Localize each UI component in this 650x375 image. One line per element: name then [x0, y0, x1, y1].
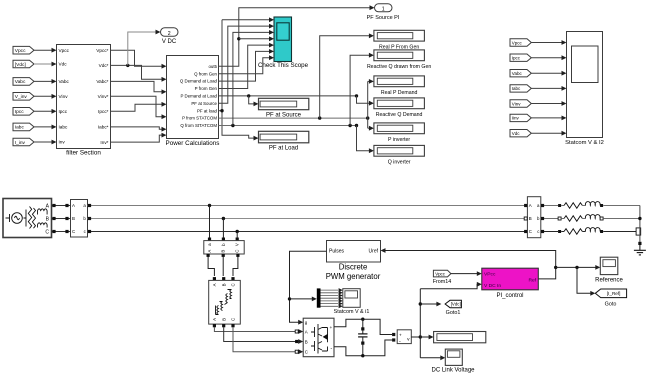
three-phase source block [3, 199, 52, 238]
svg-text:P from STATCOM: P from STATCOM [182, 116, 217, 121]
display Reactive Q Demand [374, 98, 425, 109]
bus wire phase B [88, 218, 528, 220]
from tag Vabc [13, 78, 34, 86]
svg-text:Goto: Goto [605, 302, 617, 308]
svg-text:1: 1 [382, 7, 385, 13]
svg-text:-: - [399, 339, 401, 345]
svg-text:[Vdc]: [Vdc] [15, 62, 26, 68]
from tag Vabc (statcom scope) [510, 70, 531, 77]
svg-text:[I_Ref]: [I_Ref] [607, 291, 621, 296]
svg-text:A: A [529, 203, 532, 208]
wire v output to DC link node [411, 336, 420, 338]
svg-text:[Vdc]: [Vdc] [451, 302, 461, 307]
svg-text:Iabc: Iabc [15, 125, 25, 131]
tap wires to PWM measurement block [208, 204, 211, 207]
svg-text:A: A [212, 283, 217, 286]
svg-text:Goto1: Goto1 [446, 310, 461, 316]
from tag V_inv [13, 93, 34, 101]
wire to Goto I_Ref [577, 267, 591, 293]
svg-text:Discrete: Discrete [339, 263, 368, 272]
svg-text:Iabc: Iabc [512, 86, 521, 91]
svg-text:Iinv: Iinv [512, 116, 520, 121]
wire PC out1 to PF Source PI and scope in4 [219, 8, 371, 67]
svg-text:Statcom V & I2: Statcom V & I2 [565, 140, 604, 146]
svg-text:+: + [399, 333, 402, 338]
from tag Vinv (statcom scope) [510, 100, 531, 107]
svg-text:Vinv*: Vinv* [98, 94, 109, 99]
svg-text:Vabc: Vabc [15, 79, 26, 85]
goto tag [Vdc] Goto1 [445, 300, 461, 307]
svg-text:C: C [231, 283, 236, 286]
wire to DC Link Voltage scope [420, 357, 441, 359]
svg-text:-: - [330, 345, 332, 351]
wire Vabc to filter [34, 80, 52, 82]
svg-text:C: C [234, 250, 239, 253]
wire PC out2 to scope in7 [219, 58, 270, 74]
svg-text:Real P Demand: Real P Demand [381, 90, 418, 96]
RL branch row 2 [541, 218, 558, 220]
display Real P From Gen [374, 30, 425, 41]
svg-text:Vabc: Vabc [59, 79, 70, 84]
svg-text:Vpcc: Vpcc [59, 48, 70, 53]
wires transformer to inverter bridge [213, 324, 216, 327]
svg-text:Vpcc: Vpcc [15, 48, 26, 54]
svg-text:B: B [221, 283, 226, 286]
wire From14 to PI VPcc [451, 273, 478, 275]
svg-text:Inv: Inv [59, 140, 66, 145]
svg-text:PF at Source: PF at Source [266, 113, 302, 119]
subsystem filter Section [57, 45, 111, 149]
svg-text:A: A [207, 250, 212, 253]
svg-text:V_inv: V_inv [15, 94, 28, 100]
from tag Vdc (statcom scope) [510, 130, 531, 137]
from tag Ipcc [13, 108, 34, 116]
svg-text:C: C [45, 229, 49, 235]
svg-text:PWM generator: PWM generator [326, 272, 381, 281]
scope DC Link Voltage [445, 349, 462, 365]
wire PC out8 to displays Real P From Gen / Real P Demand / P inverter [219, 117, 368, 119]
svg-text:P inverter: P inverter [388, 137, 410, 143]
svg-text:Vpcc: Vpcc [435, 271, 446, 276]
breaker element row C [636, 228, 641, 235]
svg-text:Uref: Uref [369, 249, 379, 255]
svg-text:PF Source PI: PF Source PI [367, 15, 400, 21]
display P inverter [374, 123, 425, 134]
display PF at Load [259, 131, 309, 143]
svg-text:P Demand at Load: P Demand at Load [180, 94, 217, 99]
wire Ref to Uref loop [385, 251, 556, 279]
svg-text:From14: From14 [433, 279, 452, 285]
display PF at Source [259, 98, 309, 109]
source icon [6, 207, 48, 229]
wire Vpcc to filter [34, 49, 52, 51]
from tag Iinv (statcom scope) [510, 114, 531, 121]
scope Statcom V and I2 [567, 32, 603, 138]
scope Reference [600, 257, 618, 274]
wire I_inv to filter [34, 141, 52, 143]
svg-text:Reactive Q Demand: Reactive Q Demand [376, 112, 423, 118]
svg-text:filter Section: filter Section [66, 150, 101, 157]
svg-text:C: C [529, 229, 532, 234]
wire Vabc to scope [531, 72, 562, 74]
svg-text:C: C [305, 349, 308, 354]
wire to DC display [420, 336, 429, 338]
svg-text:Vdc: Vdc [59, 62, 68, 67]
wire Iabc to filter [34, 126, 52, 128]
goto tag [I_Ref] [595, 289, 626, 298]
bus wire phase C [88, 231, 528, 233]
display Real P Demand [374, 76, 425, 87]
svg-text:VPcc: VPcc [484, 272, 496, 278]
transformer block [209, 280, 241, 324]
three-phase VI measurement block right [527, 197, 540, 238]
svg-text:V: V [235, 243, 240, 246]
wire Vdc to scope [531, 132, 562, 134]
wire [Vdc] to filter [34, 63, 52, 65]
from tag Iabc (statcom scope) [510, 85, 531, 92]
wire Iabc to scope [531, 87, 562, 89]
svg-text:+: + [329, 326, 332, 331]
voltage measurement block [397, 330, 411, 344]
wire Vinv to scope [531, 103, 562, 105]
svg-text:Q inverter: Q inverter [388, 160, 411, 166]
svg-text:DC Link Voltage: DC Link Voltage [431, 368, 475, 374]
svg-text:Ipcc: Ipcc [15, 109, 24, 115]
svg-text:I_inv: I_inv [15, 140, 26, 146]
from tag [Vdc] [13, 60, 34, 68]
from tag Vpcc From14 [433, 270, 451, 277]
RL branch row 1 [541, 205, 558, 207]
from tag Vpcc (statcom scope) [510, 39, 531, 46]
wire PC out6 PF at Source to scope in2 [219, 26, 270, 103]
vertical wire to ground [639, 206, 641, 242]
wire Ipcc to scope [531, 57, 562, 59]
svg-text:Check This Scope: Check This Scope [258, 62, 309, 69]
wire Vdc to V DC outport [126, 64, 129, 67]
svg-text:C: C [72, 229, 75, 234]
svg-text:Ref: Ref [528, 278, 536, 284]
svg-text:Statcom V & i1: Statcom V & i1 [334, 309, 370, 315]
svg-text:Ipcc*: Ipcc* [98, 109, 109, 114]
wire PC out4 to scope in5 [219, 45, 270, 88]
svg-text:C: C [231, 318, 236, 321]
signal lines demux to scope [321, 289, 339, 291]
block Discrete PWM generator [327, 241, 381, 263]
wire PC out9 to scope in3 and displays Reactive Q drawn / Q inverter [219, 125, 357, 127]
svg-text:Vpcc: Vpcc [512, 40, 523, 45]
capacitor branch [361, 318, 364, 321]
svg-text:Reference: Reference [595, 278, 623, 284]
bus wire phase A [88, 205, 528, 207]
svg-text:2: 2 [168, 31, 171, 37]
three-phase VI measurement block left [71, 200, 88, 238]
wires measurement to transformer [208, 254, 214, 276]
wires source to measurement [52, 205, 71, 207]
from tag Iabc [13, 123, 34, 131]
from tag Ipcc (statcom scope) [510, 54, 531, 61]
svg-text:Vabc*: Vabc* [96, 79, 108, 84]
svg-text:V DC: V DC [162, 39, 177, 45]
wire Vpcc to scope [531, 42, 562, 44]
svg-text:Vinv: Vinv [512, 101, 521, 106]
svg-text:Pulses: Pulses [329, 249, 345, 255]
svg-text:Q from Gen: Q from Gen [194, 71, 217, 76]
wire PC out3 to scope in6 [219, 51, 270, 81]
wires filter outputs to Power Calculations inputs [111, 50, 163, 66]
wire to Goto1 [419, 302, 422, 305]
svg-text:PF at load: PF at load [197, 108, 218, 113]
scope Statcom V and i1 [343, 289, 360, 308]
wire PC out5 to PF at Source display and Reactive Q Demand display [219, 95, 357, 97]
wire to Reference scope [556, 266, 596, 268]
display Q inverter [374, 145, 425, 156]
ground symbol [639, 245, 641, 250]
svg-text:B: B [221, 318, 226, 321]
svg-text:Vdc*: Vdc* [99, 63, 109, 68]
svg-text:Inv*: Inv* [100, 140, 108, 145]
svg-text:B: B [72, 216, 75, 221]
svg-text:B: B [305, 339, 308, 344]
RL branch row 3 [541, 231, 558, 233]
svg-text:Iabc: Iabc [59, 125, 69, 130]
svg-text:Reactive Q drawn from Gen: Reactive Q drawn from Gen [367, 64, 431, 70]
transformer icon [216, 290, 232, 315]
svg-text:PF at Load: PF at Load [269, 146, 298, 152]
svg-text:Vdc: Vdc [512, 131, 521, 136]
scope Check This Scope [274, 17, 292, 62]
display Reactive Q drawn from Gen [374, 50, 425, 61]
svg-text:V DC In: V DC In [484, 283, 501, 289]
svg-text:Power Calculations: Power Calculations [166, 140, 220, 147]
svg-text:A: A [72, 203, 75, 208]
IGBT inverter bridge block [303, 318, 334, 357]
wire to PI V DC In [420, 284, 477, 289]
wire inverter plus to capacitor rail [334, 319, 392, 334]
from tag Vpcc [13, 46, 34, 54]
wire Ipcc to filter [34, 110, 52, 112]
outport 1 PF Source PI [375, 4, 393, 12]
wire V_inv to filter [34, 95, 52, 97]
svg-text:Vpcc*: Vpcc* [96, 48, 108, 53]
svg-text:B: B [221, 250, 226, 253]
from tag I_inv [13, 138, 34, 146]
svg-text:PF at Source: PF at Source [191, 101, 217, 106]
svg-text:Ipcc: Ipcc [512, 56, 521, 61]
DC link vertical wire [419, 289, 421, 358]
display DC link [434, 332, 486, 343]
outport 2 V DC [161, 28, 179, 36]
svg-text:Vabc: Vabc [512, 71, 523, 76]
wire inverter minus to bottom rail [334, 340, 392, 356]
svg-text:Vinv: Vinv [59, 94, 69, 99]
svg-text:out5: out5 [208, 64, 217, 69]
svg-text:A: A [212, 318, 217, 321]
subsystem PI_control (magenta) [482, 268, 539, 290]
svg-text:Q Demand at Load: Q Demand at Load [180, 79, 218, 84]
svg-text:Ipcc: Ipcc [59, 109, 68, 114]
svg-text:Iabc*: Iabc* [98, 125, 109, 130]
subsystem Power Calculations [167, 56, 219, 139]
wire Iinv to scope [531, 117, 562, 119]
demux bar [317, 288, 321, 307]
wire Pulses to gate and demux [290, 251, 327, 322]
IGBT icon [311, 324, 328, 354]
wire PC out7 PF at load to scope in1 and PF at Load display [219, 110, 223, 112]
measurement block (rotated) above transformer [204, 241, 244, 254]
svg-text:PI_control: PI_control [496, 293, 523, 299]
svg-text:Q from StTATCOM: Q from StTATCOM [180, 123, 217, 128]
svg-text:B: B [529, 216, 532, 221]
svg-text:P from Gen: P from Gen [195, 86, 218, 91]
svg-text:A: A [305, 329, 308, 334]
